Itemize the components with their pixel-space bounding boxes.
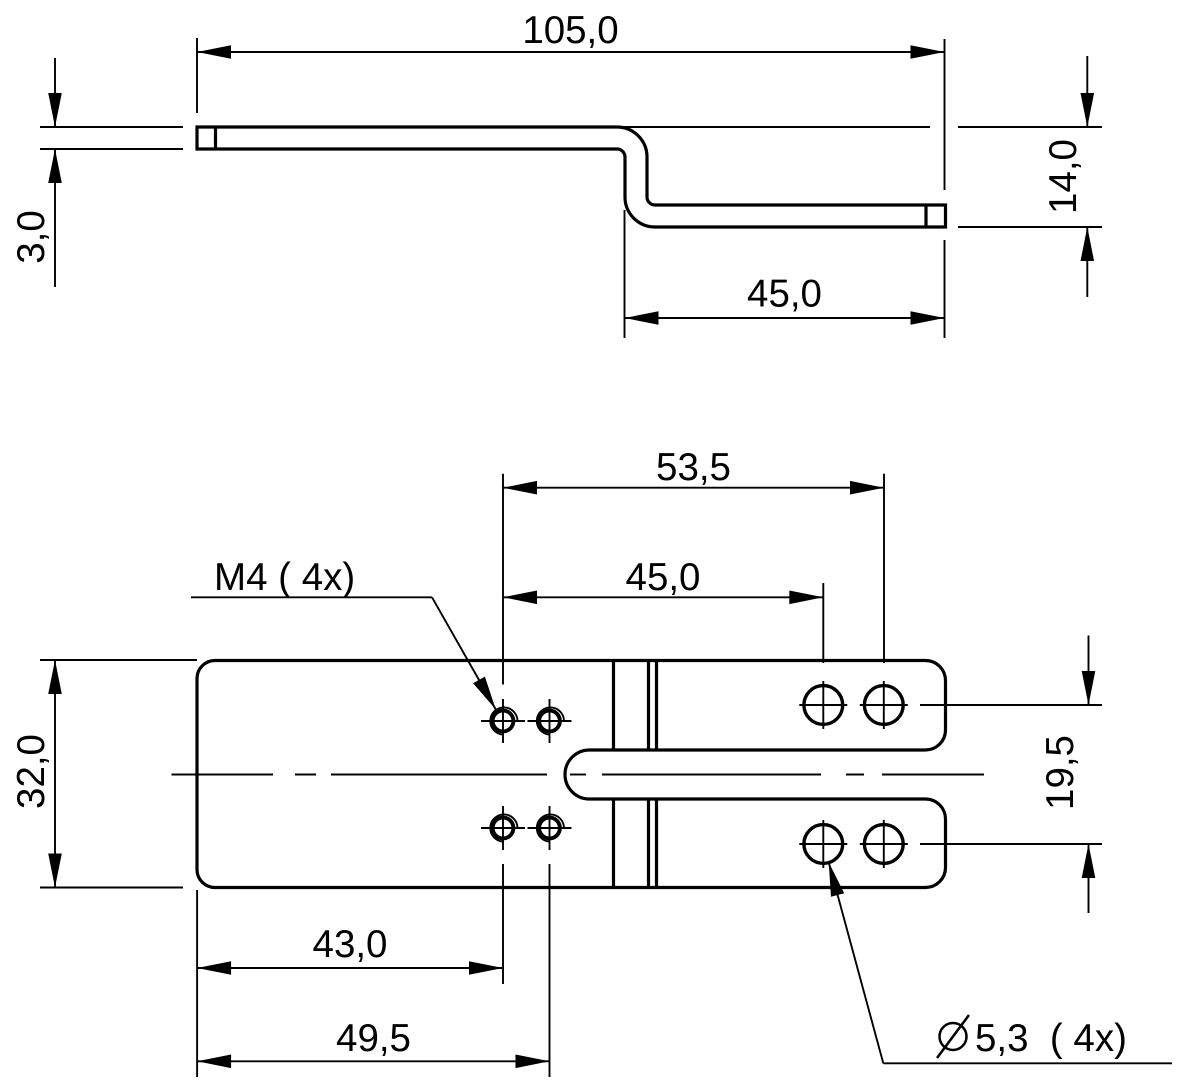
dimension 3,0 xyxy=(10,58,183,287)
clearance hole B1 (d5,3) xyxy=(799,681,847,729)
svg-text:M4 ( 4x): M4 ( 4x) xyxy=(214,556,355,599)
svg-text:19,5: 19,5 xyxy=(1039,735,1082,810)
svg-text:3,0: 3,0 xyxy=(10,210,53,264)
svg-text:53,5: 53,5 xyxy=(656,446,731,489)
bend line left xyxy=(612,661,615,888)
right end face mark xyxy=(924,205,927,227)
tapped hole A4 (M4) xyxy=(528,806,572,850)
dimension 32,0 xyxy=(10,660,197,888)
dimension 19,5 xyxy=(920,636,1102,914)
dimension 14,0 xyxy=(620,56,1102,297)
label M4 (4x) with leader xyxy=(191,556,496,710)
svg-text:49,5: 49,5 xyxy=(336,1017,411,1060)
dimension 53,5 xyxy=(503,446,884,685)
bracket side profile xyxy=(197,127,946,227)
svg-text:43,0: 43,0 xyxy=(313,923,388,966)
svg-text:105,0: 105,0 xyxy=(522,9,618,52)
tapped hole A3 (M4) xyxy=(481,806,525,850)
svg-text:5,3 ( 4x): 5,3 ( 4x) xyxy=(975,1017,1127,1060)
svg-text:32,0: 32,0 xyxy=(10,734,53,809)
bracket outline (top view) xyxy=(197,661,946,888)
dimension 105,0 xyxy=(197,9,945,338)
label diameter 5,3 (4x) with leader xyxy=(829,862,1172,1063)
dimension 45,0 (top view) xyxy=(503,556,823,663)
dimension 43,0 xyxy=(197,864,503,1077)
dimension 49,5 xyxy=(197,864,549,1077)
clearance hole B2 (d5,3) xyxy=(860,681,908,729)
clearance hole B3 (d5,3) xyxy=(799,820,847,868)
left end face mark xyxy=(214,127,217,149)
svg-text:45,0: 45,0 xyxy=(626,556,701,599)
tapped hole A2 (M4) xyxy=(528,699,572,743)
dimension 45,0 (side view) xyxy=(625,210,945,338)
horizontal centerline xyxy=(172,774,985,776)
svg-text:14,0: 14,0 xyxy=(1042,139,1085,214)
bend line middle xyxy=(647,661,650,888)
clearance hole B4 (d5,3) xyxy=(860,820,908,868)
bend line right xyxy=(655,661,658,888)
tapped hole A1 (M4) xyxy=(481,699,525,743)
svg-text:45,0: 45,0 xyxy=(747,273,822,316)
